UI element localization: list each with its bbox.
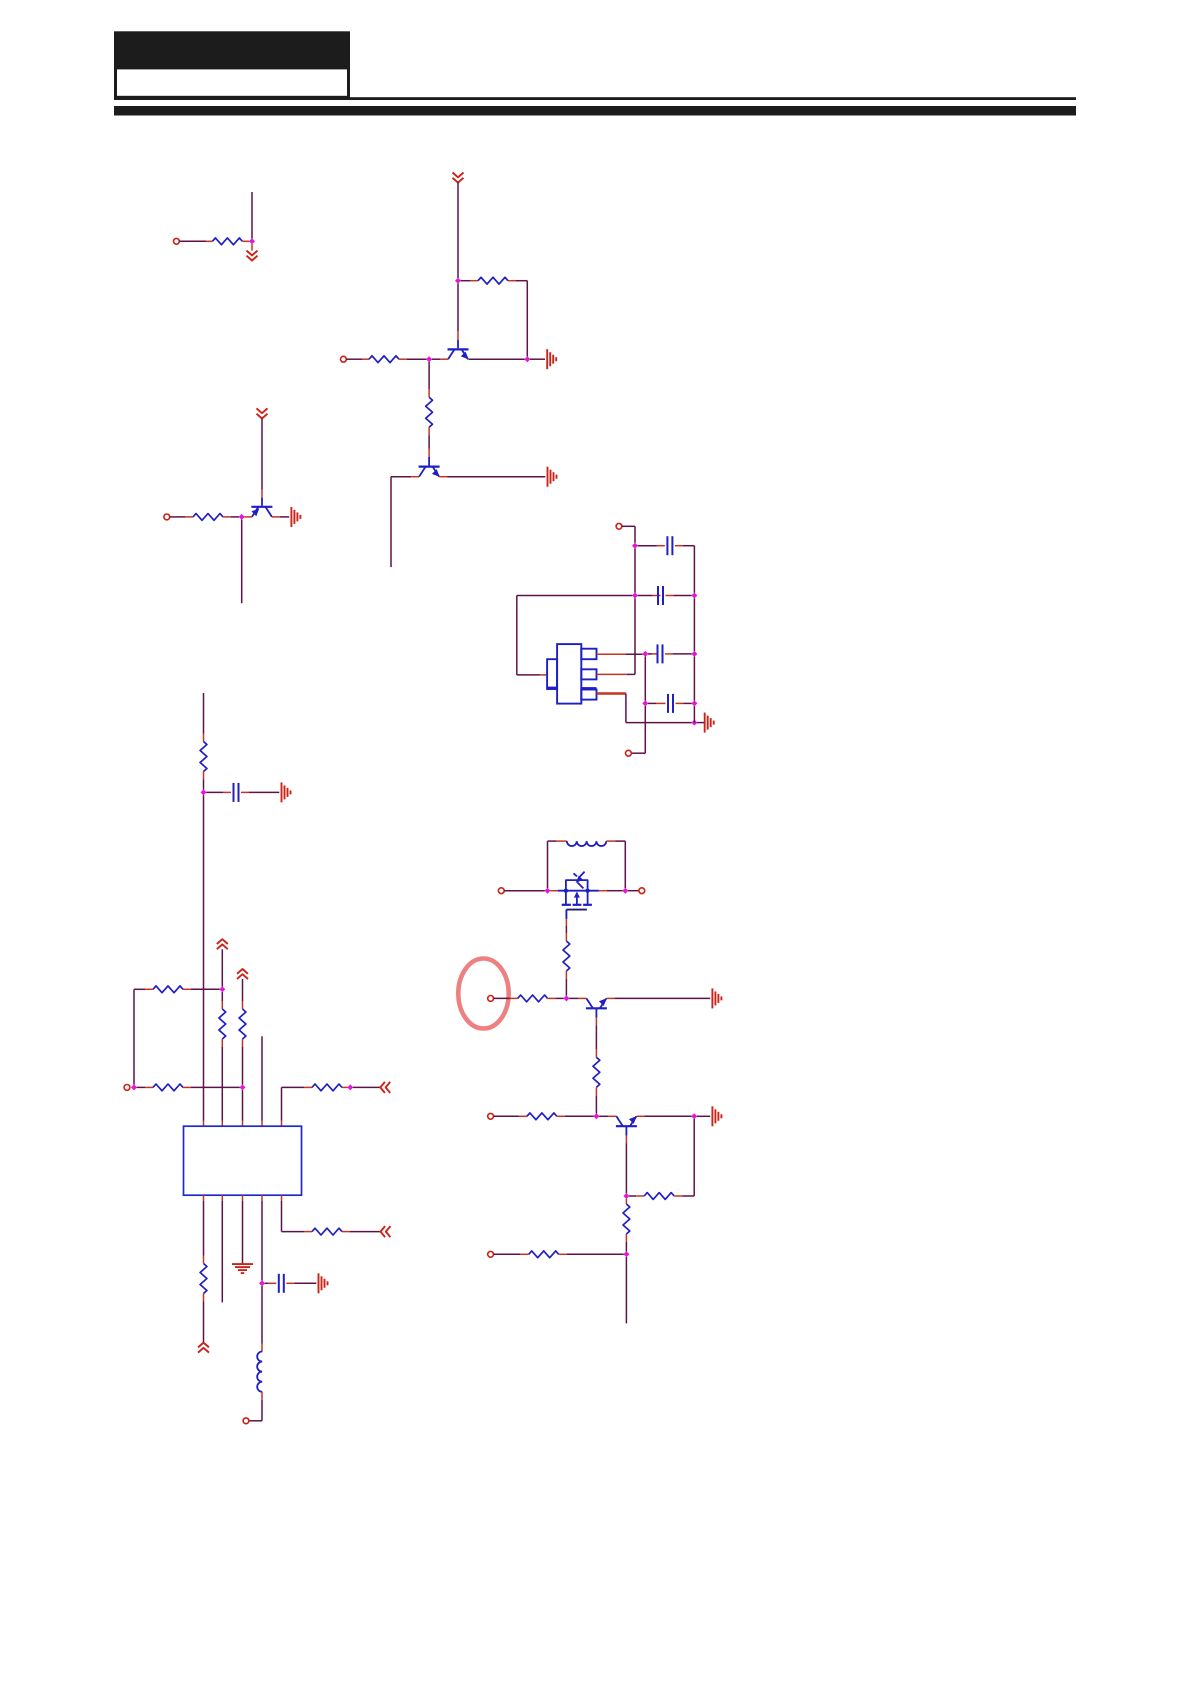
power arrow up <box>237 969 248 979</box>
wire <box>648 653 658 655</box>
wire <box>265 1282 277 1284</box>
node junction <box>239 514 245 520</box>
capacitor C4 <box>668 694 673 713</box>
node junction <box>691 1113 697 1119</box>
resistor R13 <box>312 1228 342 1235</box>
node junction <box>622 888 628 894</box>
wire <box>565 971 567 996</box>
resistor R19 <box>623 1204 630 1234</box>
resistor R18 <box>644 1193 674 1200</box>
wire pin2 <box>597 598 636 674</box>
wire <box>242 1039 244 1085</box>
wire <box>569 997 586 999</box>
capacitor C3 <box>658 644 663 663</box>
sheet connector arrow <box>381 1226 391 1237</box>
wire <box>494 1115 527 1117</box>
header white box <box>116 68 349 97</box>
wire <box>457 283 459 331</box>
wire <box>428 427 430 448</box>
connector J9 <box>639 888 645 894</box>
inductor L1 <box>257 1352 262 1392</box>
wire <box>251 244 253 251</box>
resistor R9 <box>239 1009 246 1039</box>
resistor R2 <box>478 277 508 284</box>
wire <box>557 1115 594 1117</box>
wire <box>517 674 547 676</box>
wire <box>221 1039 223 1126</box>
wire <box>595 1018 597 1058</box>
resistor R16 <box>593 1057 600 1087</box>
wire <box>282 1086 313 1088</box>
wire <box>261 1286 263 1352</box>
ground <box>548 467 557 487</box>
wire corner <box>390 477 392 567</box>
resistor R15 <box>518 995 548 1002</box>
wire <box>599 890 623 892</box>
wire <box>134 988 153 990</box>
wire <box>622 526 635 543</box>
wire <box>550 890 558 892</box>
wire <box>203 1294 205 1343</box>
wire <box>241 520 243 604</box>
wire <box>548 841 567 888</box>
power arrow up <box>217 939 228 949</box>
wire <box>391 476 419 478</box>
node junction <box>131 1084 137 1090</box>
wire <box>676 702 692 704</box>
wire <box>625 1257 627 1323</box>
header thick rule <box>114 106 1076 116</box>
node junction <box>219 986 225 992</box>
node junction <box>593 1113 599 1119</box>
earth ground <box>232 1264 253 1273</box>
node junction <box>623 1193 629 1199</box>
resistor R12 <box>200 1264 207 1294</box>
connector J8 <box>498 888 504 894</box>
wire <box>625 1234 627 1252</box>
node junction <box>691 651 697 657</box>
transistor Q5 <box>616 1116 637 1126</box>
resistor R6 <box>200 742 207 772</box>
wire <box>242 1195 244 1264</box>
wire <box>261 1036 263 1126</box>
wire <box>457 331 459 340</box>
wire pin3 <box>597 692 626 695</box>
wire row <box>183 988 220 990</box>
node junction <box>426 356 432 362</box>
wire <box>203 693 205 742</box>
wire right rail <box>693 706 695 723</box>
wire <box>221 1195 223 1302</box>
wire <box>626 694 692 723</box>
resistor R5 <box>193 514 223 521</box>
resistor R14 <box>563 941 570 971</box>
wire <box>469 358 525 360</box>
power arrow up <box>198 1343 209 1353</box>
wire <box>342 1231 381 1233</box>
wire <box>530 358 545 360</box>
capacitor C1 <box>667 536 672 555</box>
wire <box>428 362 430 397</box>
wire <box>666 595 692 597</box>
resistor R11 <box>312 1084 342 1091</box>
resistor R10 <box>153 1084 183 1091</box>
wire <box>517 595 633 597</box>
wire <box>606 841 625 888</box>
wire <box>282 1231 313 1233</box>
transistor Q5 base <box>625 1126 627 1136</box>
wire <box>595 1087 597 1113</box>
wire right rail <box>693 657 695 701</box>
connector J5 <box>626 750 632 756</box>
node junction <box>545 888 551 894</box>
wire <box>221 992 223 1009</box>
ground <box>319 1273 328 1293</box>
power arrow down <box>247 251 258 261</box>
header black title box <box>114 31 350 68</box>
wire <box>203 1195 205 1263</box>
wire <box>223 516 239 518</box>
connector J12 <box>488 1251 494 1257</box>
ground <box>705 713 714 733</box>
wire <box>203 772 205 790</box>
wire <box>628 890 639 892</box>
wire <box>548 997 564 999</box>
wire <box>242 240 249 242</box>
capacitor C2 <box>658 586 663 605</box>
wire <box>242 979 244 1009</box>
wire corner <box>693 1119 695 1196</box>
node junction <box>259 1280 265 1286</box>
wire <box>249 1392 262 1421</box>
transistor Q1 <box>448 349 469 359</box>
wire <box>606 997 710 999</box>
crystal filter X1 <box>547 644 596 704</box>
wire <box>183 1086 240 1088</box>
connector J3 <box>164 514 170 520</box>
connector J6 <box>124 1085 130 1091</box>
wire corner <box>133 989 135 1084</box>
wire <box>353 1086 380 1088</box>
node junction <box>632 593 638 599</box>
wire <box>559 1253 624 1255</box>
wire <box>242 1090 244 1126</box>
wire <box>346 358 369 360</box>
capacitor C5 <box>234 783 239 802</box>
connector J10 <box>488 996 494 1002</box>
ground <box>712 988 721 1008</box>
node junction <box>524 356 530 362</box>
ground <box>547 349 556 369</box>
wire <box>504 890 545 892</box>
transistor Q1 base <box>457 340 459 348</box>
node junction <box>455 278 461 284</box>
wire <box>399 358 426 360</box>
wire <box>251 192 253 239</box>
wire <box>494 1253 529 1255</box>
IC U1 <box>184 1126 302 1195</box>
power arrow down <box>257 408 268 418</box>
wire <box>508 280 527 282</box>
wire <box>644 657 646 701</box>
node junction <box>563 995 569 1001</box>
transistor Q4 base <box>595 1008 597 1018</box>
wire <box>137 1086 153 1088</box>
wire <box>221 949 223 986</box>
wire <box>342 1086 348 1088</box>
wire <box>261 490 263 498</box>
node junction <box>642 700 648 706</box>
wire <box>281 1195 283 1231</box>
node junction <box>201 789 207 795</box>
resistor R3 <box>369 356 399 363</box>
wire <box>461 280 478 282</box>
wire <box>665 653 692 655</box>
wire <box>674 1195 694 1197</box>
inductor L2 <box>567 841 606 846</box>
wire gate lead <box>565 919 567 941</box>
ground <box>712 1106 721 1126</box>
connector J2 <box>341 356 347 362</box>
power arrow down <box>453 173 464 183</box>
wire <box>272 516 289 518</box>
resistor R7 <box>219 1009 226 1039</box>
wire <box>631 706 645 753</box>
wire <box>697 722 704 724</box>
wire pin1 <box>597 653 643 655</box>
wire <box>179 240 212 242</box>
wire <box>638 595 661 597</box>
transistor Q4 <box>586 998 607 1008</box>
wire <box>675 545 695 547</box>
node junction <box>632 543 638 549</box>
node junction <box>642 651 648 657</box>
resistor R8 <box>153 986 183 993</box>
ground <box>282 782 291 802</box>
wire <box>516 596 518 675</box>
wire <box>625 1136 627 1194</box>
ground <box>291 507 300 527</box>
wire <box>428 449 430 457</box>
wire <box>634 548 636 592</box>
connector J11 <box>488 1113 494 1119</box>
node junction <box>240 1084 246 1090</box>
wire <box>170 516 193 518</box>
sheet connector arrow <box>380 1082 390 1093</box>
header thin rule <box>114 97 1076 100</box>
wire <box>625 1199 627 1204</box>
annotation ellipse <box>458 959 508 1029</box>
wire right rail <box>693 546 695 593</box>
transistor Q3 base <box>261 498 263 506</box>
wire long rail <box>203 795 205 1126</box>
wire corner <box>526 281 528 357</box>
connector J4 <box>616 523 622 529</box>
wire <box>286 1282 316 1284</box>
wire <box>648 702 666 704</box>
capacitor C6 <box>279 1274 284 1293</box>
node junction <box>347 1084 353 1090</box>
wire <box>244 516 252 518</box>
transistor Q2 <box>419 467 440 477</box>
wire <box>636 1115 691 1117</box>
wire <box>261 1195 263 1280</box>
transistor Q3 <box>251 507 272 517</box>
connector J1 <box>174 238 180 244</box>
connector J7 <box>243 1418 249 1424</box>
resistor R17 <box>527 1113 557 1120</box>
node junction <box>623 1251 629 1257</box>
resistor R1 <box>212 238 242 245</box>
wire <box>629 1195 644 1197</box>
dual-gate MOSFET M1 <box>558 872 599 919</box>
wire <box>638 545 665 547</box>
wire <box>599 1115 616 1117</box>
wire <box>206 791 231 793</box>
wire <box>432 358 448 360</box>
wire <box>241 791 279 793</box>
transistor Q2 base <box>428 457 430 466</box>
resistor R20 <box>529 1251 559 1258</box>
wire <box>261 419 263 490</box>
wire <box>439 476 545 478</box>
node junction <box>691 593 697 599</box>
node junction <box>691 700 697 706</box>
node junction <box>249 238 255 244</box>
wire corner <box>281 1087 283 1126</box>
wire right rail <box>693 598 695 651</box>
wire <box>457 183 459 278</box>
wire <box>697 1115 710 1117</box>
node junction <box>691 720 697 726</box>
resistor R4 <box>426 397 433 427</box>
wire <box>494 997 518 999</box>
